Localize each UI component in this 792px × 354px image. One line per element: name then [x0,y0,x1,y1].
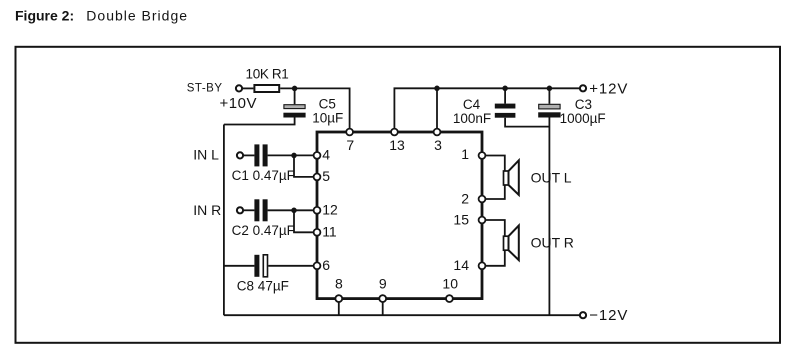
svg-text:+12V: +12V [589,80,628,97]
terminal IN R [237,207,243,213]
speaker OUT R [504,226,519,261]
svg-text:OUT L: OUT L [531,169,572,185]
wire step to pin 11 [294,210,317,232]
junction C4 top [502,86,508,92]
svg-text:13: 13 [389,137,405,153]
svg-text:10: 10 [442,275,458,291]
capacitor C2 [254,199,267,221]
pin 9 [379,295,386,302]
svg-text:12: 12 [322,202,338,218]
wire ST-BY terminal to R1 [242,87,253,89]
terminal -12V [580,312,586,318]
wire -12V bottom rail [224,314,580,316]
wire C1 to pin 4 [268,154,317,156]
svg-text:1: 1 [461,146,469,162]
wire C4 bottom to C3 bottom [505,118,549,127]
svg-text:C8 47µF: C8 47µF [237,279,289,294]
svg-text:+10V: +10V [220,95,257,112]
capacitor C1 [254,144,267,166]
wire C8 to pin 6 [268,265,317,267]
terminal IN L [237,152,243,158]
wire pin 8 stub to -12V rail [338,299,340,316]
pin 13 [391,129,398,136]
svg-text:C3: C3 [575,97,592,112]
capacitor C5 [283,105,305,118]
pin 10 [446,295,453,302]
svg-text:Double Bridge: Double Bridge [86,8,188,24]
wire C2 to pin 12 [268,209,317,211]
pin 14 [479,262,486,269]
svg-text:C1 0.47µF: C1 0.47µF [232,168,295,183]
wire C3 bottom lead down to -12V rail [548,118,550,316]
wire C4 top lead [504,88,506,103]
svg-text:10K R1: 10K R1 [246,67,289,82]
resistor R1 [254,85,279,92]
svg-text:7: 7 [346,137,354,153]
wire left rail down [223,125,225,316]
svg-text:100nF: 100nF [453,111,491,126]
svg-text:Figure 2:: Figure 2: [15,8,74,24]
svg-text:15: 15 [453,211,469,227]
wire pin 9 stub to -12V rail [382,299,384,316]
terminal ST-BY [236,85,242,91]
wire speaker L loop pins 1-2 [482,156,505,200]
pin 8 [335,295,342,302]
svg-text:ST-BY: ST-BY [187,82,223,94]
svg-text:IN L: IN L [193,147,219,163]
pin 6 [314,262,321,269]
pin 1 [479,152,486,159]
IC U1 body [317,132,482,299]
wire C3 top lead [548,88,550,104]
svg-text:5: 5 [322,168,330,184]
pin 15 [479,217,486,224]
svg-text:−12V: −12V [589,307,628,324]
capacitor C4 [495,104,516,118]
junction R1/C5 [292,86,298,92]
junction above pin 3 [434,86,440,92]
figure title [15,8,188,24]
pin 5 [314,174,321,181]
wire C5 top lead [294,88,296,104]
capacitor C8 [254,255,267,277]
speaker OUT L [504,160,519,195]
wire IN R terminal to C2 [243,209,254,211]
svg-text:3: 3 [434,137,442,153]
pin 11 [314,229,321,236]
svg-text:1000µF: 1000µF [560,111,606,126]
pin 4 [314,152,321,159]
svg-text:8: 8 [335,275,343,291]
pin 12 [314,207,321,214]
wire IN L terminal to C1 [243,154,254,156]
wire pin3 riser [436,88,438,132]
wire C5 bottom to left rail [224,118,295,125]
wire R1 to pin 7 [280,88,349,132]
svg-text:9: 9 [379,275,387,291]
svg-text:C5: C5 [319,97,336,112]
svg-text:6: 6 [322,257,330,273]
pin 2 [479,196,486,203]
svg-text:C2 0.47µF: C2 0.47µF [232,223,295,238]
wire pin13 riser to +12V rail [394,88,579,132]
svg-text:OUT R: OUT R [531,234,574,250]
junction C2/pin11 [291,208,297,214]
svg-text:C4: C4 [463,97,481,112]
svg-text:4: 4 [322,147,330,163]
wire left rail to C8 [224,265,255,267]
wire speaker R loop pins 15-14 [482,220,505,266]
wire step to pin 5 [294,155,317,177]
svg-text:11: 11 [322,224,337,240]
junction C1/pin5 [291,153,297,159]
pin 7 [346,129,353,136]
svg-text:IN R: IN R [193,202,221,218]
junction C3 top [547,86,553,92]
pin 3 [434,129,441,136]
svg-text:2: 2 [461,190,469,206]
svg-text:10µF: 10µF [312,111,343,126]
terminal +12V [580,85,586,91]
svg-text:14: 14 [453,257,469,273]
capacitor C3 [538,104,560,117]
